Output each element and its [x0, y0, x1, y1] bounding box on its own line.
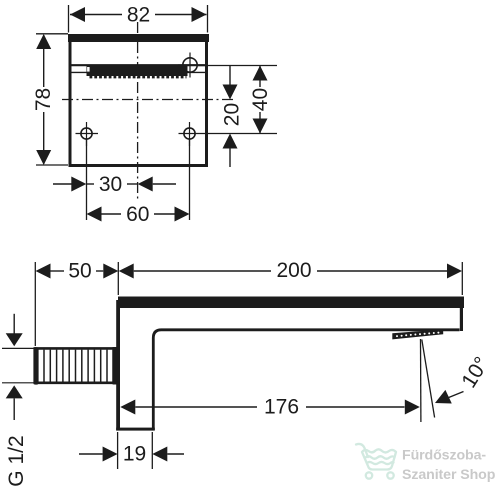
dimension 30 line segments: [86, 183, 94, 185]
extension line bottom for dim 78: [36, 164, 68, 166]
arrow 60 left: [87, 207, 102, 222]
dimension 60 line segments: [102, 213, 122, 215]
dimension 19 extension left: [117, 432, 119, 469]
body outline right side: [205, 34, 208, 167]
extension line hole right down: [189, 140, 191, 221]
angle 10 deg slanted line: [422, 340, 435, 418]
svg-text:40: 40: [249, 88, 272, 111]
svg-text:82: 82: [127, 4, 150, 27]
outlet channel upper line: [71, 64, 206, 66]
G12 dimension lower line: [13, 398, 15, 420]
outlet channel lower line: [71, 71, 206, 73]
hole right crosshair: [189, 122, 191, 146]
svg-text:G 1/2: G 1/2: [5, 435, 28, 486]
horizontal centerline: [62, 99, 233, 101]
angle leader arrow: [435, 390, 452, 404]
body outline bottom side: [69, 164, 209, 167]
arrow 50 right: [103, 264, 118, 279]
extension line middle (wall face): [117, 262, 119, 295]
extension line left of dim 82: [68, 5, 70, 33]
arrow 78 down: [36, 150, 51, 165]
svg-text:Szaniter Shop: Szaniter Shop: [402, 467, 496, 483]
pipe to wall connector block: [113, 347, 120, 385]
dimension 20 drop line: [229, 66, 231, 85]
outlet slot left notch: [87, 67, 90, 72]
dimension 30 left tail: [53, 183, 72, 185]
G12 dimension upper line: [13, 314, 15, 334]
svg-text:60: 60: [126, 203, 149, 226]
dimension 200 line: [134, 270, 271, 272]
aerator white dots: [396, 332, 439, 338]
spout tip right face: [460, 308, 463, 331]
arrow 19 right (pointing left): [152, 447, 167, 462]
angle reference vertical line: [420, 339, 422, 422]
water outlet slot: [87, 65, 188, 76]
arrow 82 left: [70, 7, 85, 22]
dimension line 82: [70, 14, 122, 16]
extension line hole left down: [86, 140, 88, 221]
extension line top for dim 78: [36, 33, 68, 35]
dimension 30 right tail: [153, 183, 176, 185]
hole left crosshair: [86, 122, 88, 146]
svg-text:Fürdőszoba-: Fürdőszoba-: [402, 448, 486, 464]
leg right face and spout underside: [153, 330, 459, 430]
angle leader line: [445, 392, 464, 400]
arrow 20 down (outside above centerline): [223, 85, 238, 100]
svg-text:10°: 10°: [457, 353, 493, 392]
svg-text:78: 78: [32, 88, 55, 111]
outlet circle crosshair vertical: [189, 53, 191, 78]
mounting hole left: [81, 128, 92, 139]
svg-text:176: 176: [264, 396, 299, 419]
arrow 40 up: [253, 66, 268, 81]
arrow 30 left (outside pointing right): [71, 177, 86, 192]
body outline left side: [69, 34, 72, 167]
dimension 19 left tail: [79, 453, 103, 455]
G12 arrow down: [6, 333, 23, 346]
dimension 176 arrow right: [405, 400, 420, 415]
vertical centerline: [137, 22, 139, 200]
arrow 78 up: [36, 34, 51, 49]
extension line right (spout tip): [461, 262, 463, 295]
arrow 200 left: [119, 264, 134, 279]
extension line right lower (hole level): [199, 133, 277, 135]
aerator band at spout tip: [392, 329, 443, 339]
dimension line 40: [259, 66, 261, 87]
G12 extension line bottom: [2, 382, 34, 384]
svg-text:19: 19: [123, 443, 146, 466]
wall plate bottom edge: [116, 428, 155, 431]
dimension line 78: [43, 35, 45, 87]
threaded pipe end cap: [33, 347, 38, 384]
mounting hole right: [184, 128, 195, 139]
threaded pipe bottom edge: [34, 381, 116, 384]
extension line right upper (outlet level): [198, 65, 277, 67]
svg-text:50: 50: [68, 260, 91, 283]
svg-text:30: 30: [99, 173, 122, 196]
arrow 200 right: [447, 264, 462, 279]
arrow 82 right: [192, 7, 207, 22]
outlet slot teeth: [90, 76, 187, 78]
arrow 20 up (outside below hole line): [223, 134, 238, 149]
dimension 176 arrow left: [120, 400, 135, 415]
arrow 30 right (outside pointing left): [138, 177, 153, 192]
svg-text:200: 200: [276, 259, 311, 282]
spout top plate (thick top bar of square body): [68, 34, 209, 42]
dimension 176 line: [135, 406, 257, 408]
outlet circle: [183, 58, 197, 72]
svg-text:20: 20: [221, 103, 244, 126]
dimension 50 line: [51, 270, 65, 272]
G12 extension line top: [2, 347, 34, 349]
arrow 40 down: [253, 119, 268, 134]
arrow 60 right: [175, 207, 190, 222]
dimension 19 extension right: [151, 432, 153, 469]
arrow 50 left: [36, 264, 51, 279]
dimension 20 tail line: [229, 149, 231, 168]
dimension 19 right tail: [167, 453, 184, 455]
wall plate left face: [116, 300, 120, 431]
arrow 19 left (pointing right): [103, 447, 118, 462]
spout top plate side view (thick bar): [118, 297, 464, 309]
G12 arrow up: [6, 385, 23, 398]
extension line left (pipe end): [34, 262, 36, 346]
pipe thread hatch: [44, 350, 113, 382]
threaded pipe top edge: [34, 347, 116, 350]
extension line right of dim 82: [207, 5, 209, 33]
outlet circle crosshair horizontal: [178, 64, 204, 66]
watermark cart icon: [356, 444, 396, 479]
